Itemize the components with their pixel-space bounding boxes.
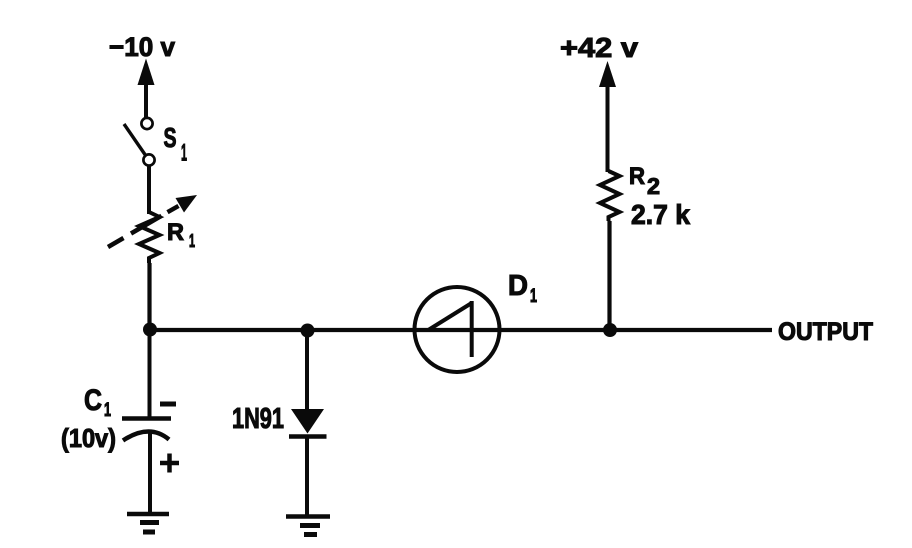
- switch S1: [124, 118, 155, 166]
- wire node A to C1: [148, 330, 152, 417]
- C1 plus polarity mark: [160, 454, 179, 473]
- label R1: [167, 219, 195, 251]
- svg-text:−10 v: −10 v: [109, 32, 175, 62]
- label S1: [164, 122, 188, 167]
- capacitor C1: [122, 419, 171, 441]
- +42v supply arrow: [599, 61, 616, 172]
- wire diode to ground: [305, 436, 309, 516]
- wire R2 to node C: [607, 221, 611, 330]
- wire C1 to ground: [148, 432, 152, 514]
- resistor R2: [600, 171, 620, 221]
- resistor R1 (variable): [108, 195, 197, 263]
- svg-text:1: 1: [104, 400, 111, 421]
- C1 minus polarity mark: [160, 402, 176, 407]
- main horizontal wire: [149, 328, 772, 332]
- ground (left): [127, 514, 169, 532]
- svg-text:S: S: [164, 122, 177, 153]
- svg-text:1N91: 1N91: [232, 403, 284, 435]
- label C1: [84, 384, 111, 421]
- svg-text:1: 1: [189, 231, 195, 251]
- svg-text:1: 1: [181, 140, 187, 167]
- svg-text:R: R: [167, 219, 184, 246]
- junction node A: [143, 323, 157, 337]
- junction node B: [301, 324, 315, 338]
- wire node B to diode: [305, 330, 309, 409]
- svg-text:R: R: [629, 163, 645, 190]
- svg-text:+42 v: +42 v: [560, 32, 638, 63]
- tunnel diode D1: [415, 287, 500, 372]
- wire R1 to node A: [147, 263, 151, 332]
- wire switch to R1: [147, 166, 151, 214]
- node -10v supply label: [109, 32, 175, 62]
- svg-text:1: 1: [530, 286, 537, 307]
- junction node C: [603, 323, 617, 337]
- svg-text:D: D: [508, 270, 528, 302]
- -10v supply arrow: [138, 59, 155, 119]
- ground (right): [286, 517, 330, 535]
- svg-text:C: C: [84, 384, 102, 417]
- svg-text:OUTPUT: OUTPUT: [778, 318, 873, 346]
- svg-text:(10v): (10v): [61, 423, 116, 453]
- diode 1N91: [289, 409, 327, 437]
- svg-text:2.7 k: 2.7 k: [631, 199, 690, 230]
- label D1: [508, 270, 537, 307]
- label R2: [629, 163, 660, 199]
- svg-text:2: 2: [647, 173, 660, 199]
